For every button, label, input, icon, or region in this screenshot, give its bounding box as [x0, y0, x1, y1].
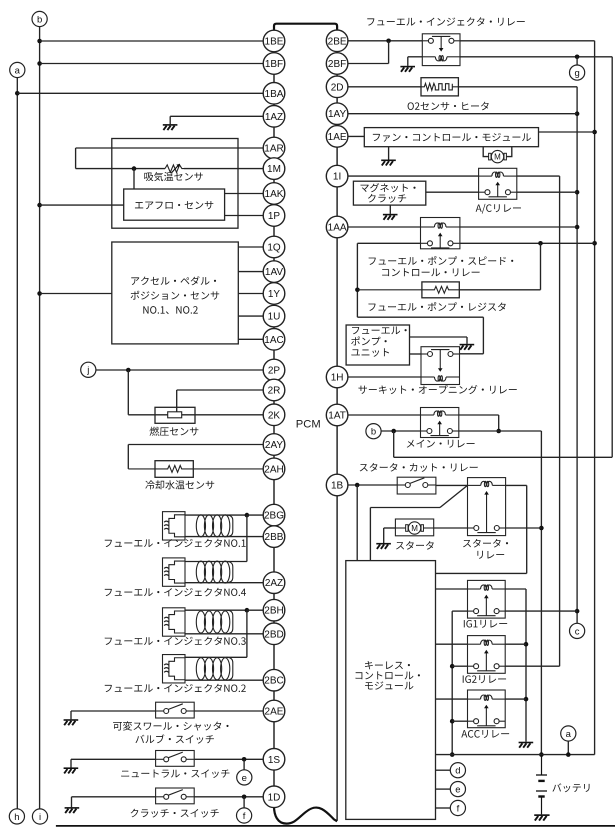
- wire: [452, 610, 467, 612]
- wire coil-gnd bus: [525, 589, 527, 742]
- svg-text:c: c: [575, 626, 580, 637]
- coolant temp sensor resistor: [128, 466, 263, 473]
- wire 1Y: [238, 293, 263, 295]
- wire: [70, 711, 72, 719]
- wire: [247, 609, 263, 611]
- svg-text:e: e: [455, 785, 460, 796]
- wire: [393, 431, 395, 457]
- wire: [185, 609, 247, 611]
- junction: [450, 664, 455, 669]
- wire: [127, 445, 129, 469]
- svg-text:1AK: 1AK: [265, 189, 284, 200]
- label クラッチ・スイッチ: [131, 809, 219, 818]
- wire node-b vertical: [39, 27, 41, 809]
- junction: [575, 111, 580, 116]
- wire: [381, 430, 420, 432]
- PCM pin 2BH: [263, 599, 285, 621]
- svg-text:2BC: 2BC: [264, 676, 283, 687]
- fuel injector No.4: [163, 558, 233, 586]
- svg-text:1AA: 1AA: [328, 223, 347, 234]
- svg-text:1Y: 1Y: [268, 289, 281, 300]
- svg-text:j: j: [86, 365, 89, 376]
- wire: [185, 633, 263, 635]
- PCM pin 1AV: [263, 261, 285, 283]
- label バルブ・スイッチ: [135, 734, 213, 743]
- wire: [71, 797, 73, 807]
- label フューエル・: [352, 327, 407, 335]
- fan motor: [489, 150, 507, 162]
- intake air temp sensor thermistor: [165, 165, 184, 172]
- PCM pin 1Q: [263, 236, 285, 258]
- svg-text:2AZ: 2AZ: [265, 578, 283, 589]
- PCM pin 1S: [263, 749, 285, 771]
- PCM pin 1AE: [326, 126, 348, 148]
- svg-text:2P: 2P: [268, 366, 281, 377]
- wire 1AY: [348, 113, 577, 115]
- ground: [460, 345, 475, 350]
- wire bus main-switch: [540, 431, 542, 755]
- svg-text:1P: 1P: [268, 211, 281, 222]
- wire: [246, 610, 248, 657]
- wire: [384, 527, 396, 529]
- wire: [75, 148, 77, 169]
- PCM pin 1BF: [263, 53, 285, 75]
- wire: [247, 514, 263, 516]
- wire: [567, 741, 569, 755]
- wire feed bus: [451, 611, 453, 755]
- wire e: [436, 788, 451, 790]
- wire: [506, 527, 542, 529]
- label エアフロ・センサ: [135, 201, 213, 209]
- node g: [570, 65, 585, 80]
- wire: [389, 205, 391, 214]
- ground: [65, 808, 80, 813]
- fuel injector relay: [422, 34, 460, 66]
- svg-text:1U: 1U: [268, 312, 281, 323]
- keyless control module box: [346, 561, 436, 820]
- wire: [127, 370, 129, 415]
- label NO.1、NO.2: [143, 306, 197, 314]
- node f left: [237, 808, 252, 823]
- wire: [460, 242, 595, 244]
- fuel injector No.1: [163, 512, 233, 540]
- junction: [575, 225, 580, 230]
- label 吸気温センサ: [144, 172, 202, 181]
- junction: [132, 166, 137, 171]
- wire 1AC: [238, 338, 263, 340]
- label O2センサ・ヒータ: [408, 102, 489, 111]
- PCM pin 2K: [263, 404, 285, 426]
- wire 2K: [182, 414, 264, 416]
- node e keyless: [450, 782, 465, 797]
- wire: [185, 679, 263, 681]
- ground: [163, 125, 178, 130]
- wire 1H: [348, 376, 421, 378]
- wire 1AE: [348, 135, 364, 137]
- junction: [37, 291, 42, 296]
- O2 sensor heater element: [421, 83, 458, 90]
- accel pedal position sensor box: [112, 242, 239, 344]
- wire: [436, 588, 468, 590]
- ground: [534, 815, 549, 820]
- starter cut relay: [397, 477, 436, 494]
- label フューエル・インジェクタNO.4: [105, 588, 246, 597]
- wire: [505, 643, 526, 645]
- IG1 relay: [468, 580, 506, 618]
- wire 1I: [348, 175, 479, 177]
- wire: [388, 147, 390, 160]
- svg-text:b: b: [37, 14, 42, 25]
- wire: [576, 57, 578, 65]
- svg-text:1BA: 1BA: [265, 89, 284, 100]
- svg-text:a: a: [566, 729, 572, 740]
- wire 1AV: [238, 271, 263, 273]
- PCM pin 2BC: [263, 669, 285, 691]
- junction: [242, 757, 247, 762]
- junction: [575, 609, 580, 614]
- svg-text:1S: 1S: [268, 755, 281, 766]
- label リレー: [477, 551, 504, 559]
- PCM pin 1AT: [326, 404, 348, 426]
- label アクセル・ペダル・: [131, 276, 216, 285]
- label フューエル・ポンプ・レジスタ: [368, 302, 505, 311]
- IG2 relay: [468, 636, 506, 674]
- wire bus-C vertical: [611, 57, 613, 458]
- wire: [505, 610, 577, 612]
- fan control module box: [364, 128, 538, 147]
- ground: [381, 160, 396, 165]
- A/C relay: [479, 168, 517, 199]
- wire: [185, 536, 263, 538]
- PCM pin 2BB: [263, 526, 285, 548]
- wire: [40, 293, 112, 295]
- wire: [185, 514, 247, 516]
- fuel pump unit box: [346, 325, 409, 365]
- PCM pin 2BF: [326, 53, 348, 75]
- fuel injector No.3: [163, 608, 233, 636]
- PCM bottom wave: [274, 806, 337, 824]
- svg-text:d: d: [455, 766, 460, 777]
- PCM pin 2BE: [326, 30, 348, 52]
- O2 sensor heater box: [421, 78, 458, 96]
- ground: [64, 720, 79, 725]
- label 燃圧センサ: [150, 427, 199, 436]
- PCM pin 2AZ: [263, 572, 285, 594]
- junction: [242, 795, 247, 800]
- svg-text:1AT: 1AT: [328, 411, 346, 422]
- wire bus-A: [458, 86, 577, 88]
- wire: [436, 698, 468, 700]
- wire: [176, 390, 178, 412]
- starter relay: [468, 478, 506, 536]
- PCM pin 1I: [326, 165, 348, 187]
- svg-text:f: f: [457, 803, 460, 814]
- wire 2P: [96, 369, 263, 371]
- wire 1D: [72, 796, 156, 798]
- wire: [243, 797, 245, 808]
- label フューエル・ポンプ・スピード・: [369, 256, 514, 265]
- label モジュール: [365, 681, 413, 689]
- svg-text:1Q: 1Q: [267, 243, 281, 254]
- node i: [32, 809, 47, 824]
- PCM pin 2AY: [263, 434, 285, 456]
- svg-text:2AH: 2AH: [264, 464, 283, 475]
- svg-text:2D: 2D: [331, 82, 344, 93]
- svg-text:e: e: [242, 773, 247, 784]
- wire 2AE: [71, 710, 156, 712]
- wire: [459, 430, 542, 432]
- junction: [37, 39, 42, 44]
- svg-text:2AE: 2AE: [265, 707, 284, 718]
- PCM pin 1M: [263, 158, 285, 180]
- svg-text:h: h: [14, 812, 19, 823]
- air flow sensor outer box: [112, 139, 238, 229]
- node d keyless: [450, 763, 465, 778]
- fuel pressure sensor element: [168, 412, 182, 418]
- wire 1BE: [40, 40, 264, 42]
- node e left: [237, 770, 252, 785]
- wire: [408, 56, 423, 58]
- svg-text:g: g: [574, 68, 579, 79]
- wire 1BA: [17, 92, 263, 94]
- wire: [436, 484, 468, 486]
- wire: [185, 582, 263, 584]
- label フューエル・インジェクタNO.3: [105, 637, 246, 646]
- PCM pin 1AY: [326, 103, 348, 125]
- fuel pump resistor element: [357, 286, 459, 293]
- magnet clutch box: [353, 181, 425, 205]
- svg-text:1I: 1I: [333, 172, 341, 183]
- svg-text:1AC: 1AC: [264, 335, 283, 346]
- junction: [592, 130, 597, 135]
- starter motor: [395, 519, 433, 536]
- label ACCリレー: [461, 730, 509, 738]
- wire: [243, 759, 245, 770]
- wire node-a vertical: [16, 78, 18, 809]
- wire: [452, 720, 467, 722]
- wire 1AR: [76, 147, 264, 149]
- wire 2D: [348, 86, 421, 88]
- fuel pump speed control relay: [421, 218, 460, 249]
- PCM pin 1AC: [263, 329, 285, 351]
- ground: [383, 215, 398, 220]
- wire: [369, 508, 371, 561]
- wire 1U: [238, 315, 263, 317]
- svg-text:f: f: [243, 811, 246, 822]
- PCM pin 1P: [263, 205, 285, 227]
- air flow sensor box: [124, 189, 225, 220]
- wire: [505, 588, 526, 590]
- ground: [519, 743, 534, 748]
- junction: [566, 752, 571, 757]
- junction: [37, 203, 42, 208]
- label コントロール・: [355, 671, 419, 679]
- wire 1AT: [348, 414, 421, 416]
- svg-text:2BG: 2BG: [264, 511, 284, 522]
- label スタータ: [396, 541, 434, 550]
- wire: [539, 131, 595, 133]
- wire: [505, 698, 526, 700]
- svg-text:1D: 1D: [268, 792, 281, 803]
- wire: [506, 484, 527, 486]
- frame bottom edge: [56, 825, 615, 827]
- label ポジション・センサ: [131, 291, 220, 300]
- PCM connector right chain: [336, 31, 338, 821]
- label 冷却水温センサ: [145, 480, 214, 489]
- ground: [376, 544, 391, 549]
- label IG1リレー: [464, 620, 507, 628]
- PCM pin 2R: [263, 379, 285, 401]
- node f keyless: [450, 800, 465, 815]
- label スタータ・カット・リレー: [360, 463, 478, 472]
- svg-text:1B: 1B: [331, 481, 344, 492]
- svg-text:2BB: 2BB: [265, 532, 284, 543]
- wire 2BE: [348, 40, 422, 42]
- wire: [459, 414, 499, 416]
- junction: [524, 697, 529, 702]
- svg-text:2AY: 2AY: [265, 440, 283, 451]
- junction: [126, 368, 131, 373]
- wire 2AY: [128, 444, 263, 446]
- PCM pin 2P: [263, 359, 285, 381]
- svg-text:1BE: 1BE: [265, 37, 284, 48]
- PCM pin 1B: [326, 474, 348, 496]
- circuit opening relay: [421, 347, 460, 385]
- wire 1AK: [225, 193, 264, 195]
- ground: [64, 768, 79, 773]
- junction: [539, 752, 544, 757]
- label バッテリ: [552, 783, 589, 792]
- label 可変スワール・シャッタ・: [113, 721, 229, 730]
- svg-text:1AE: 1AE: [328, 132, 347, 143]
- PCM pin 1AZ: [263, 106, 285, 128]
- junction: [386, 39, 391, 44]
- wire 1BF: [40, 63, 264, 65]
- junction: [592, 241, 597, 246]
- wire 1P: [225, 215, 264, 217]
- svg-text:2BH: 2BH: [264, 606, 283, 617]
- junction: [245, 608, 250, 613]
- label IG2リレー: [463, 675, 506, 683]
- wire: [185, 656, 247, 658]
- wire: [169, 116, 171, 124]
- wire: [70, 759, 72, 767]
- PCM pin 1BE: [263, 30, 285, 52]
- junction: [539, 526, 544, 531]
- label コントロール・リレー: [382, 268, 479, 276]
- fuel pump resistor box: [422, 282, 459, 298]
- junction: [496, 429, 501, 434]
- svg-text:2BE: 2BE: [328, 36, 347, 47]
- svg-text:1M: 1M: [267, 164, 281, 175]
- wire: [246, 515, 248, 561]
- PCM pin 2D: [326, 76, 348, 98]
- node b top: [32, 11, 47, 26]
- junction: [391, 429, 396, 434]
- wire: [460, 226, 577, 228]
- ground: [400, 67, 415, 72]
- wire 1B: [348, 484, 397, 486]
- label サーキット・オープニング・リレー: [358, 385, 516, 394]
- wire bus-B: [460, 40, 595, 42]
- wire 2R: [177, 389, 264, 391]
- svg-text:M: M: [411, 524, 418, 533]
- label キーレス・: [365, 661, 410, 669]
- coolant temp sensor box: [155, 461, 193, 478]
- label フューエル・インジェクタNO.1: [105, 539, 246, 548]
- label クラッチ: [368, 194, 406, 203]
- ACC relay: [468, 690, 506, 728]
- wire: [517, 175, 560, 177]
- wire: [357, 242, 420, 244]
- label マグネット・: [361, 183, 416, 192]
- wire: [436, 643, 468, 645]
- label ユニット: [351, 348, 389, 356]
- junction: [538, 241, 543, 246]
- wire: [128, 414, 167, 416]
- label スタータ・: [463, 539, 508, 548]
- wire 1S: [71, 758, 156, 760]
- wire diagonal: [440, 485, 468, 507]
- node j: [81, 362, 96, 377]
- label フューエル・インジェクタNO.2: [105, 684, 246, 693]
- PCM pin 1BA: [263, 83, 285, 105]
- wire battery line: [436, 754, 595, 756]
- wire: [407, 57, 409, 66]
- wire: [410, 336, 468, 338]
- wire: [410, 353, 422, 355]
- label フューエル・インジェクタ・リレー: [367, 17, 525, 26]
- junction: [37, 61, 42, 66]
- battery: [536, 755, 547, 815]
- wire: [434, 527, 468, 529]
- PCM pin 1D: [263, 786, 285, 808]
- wire: [426, 191, 479, 193]
- node h: [9, 809, 24, 824]
- svg-text:1AV: 1AV: [265, 267, 283, 278]
- svg-text:1BF: 1BF: [265, 59, 283, 70]
- label メイン・リレー: [407, 439, 475, 447]
- wire f: [436, 807, 451, 809]
- wire: [185, 561, 247, 563]
- wire bus-C: [460, 56, 612, 58]
- clutch switch: [156, 788, 195, 804]
- node b main relay: [366, 424, 381, 439]
- node a left: [10, 62, 25, 77]
- PCM pin 2BG: [263, 504, 285, 526]
- wire: [40, 204, 124, 206]
- svg-text:1AY: 1AY: [328, 109, 346, 120]
- PCM pin 1AK: [263, 183, 285, 205]
- wire: [517, 191, 577, 193]
- wire 1AZ: [170, 115, 263, 117]
- PCM pin 1U: [263, 305, 285, 327]
- PCM pin 2AE: [263, 700, 285, 722]
- wire 1M thermistor line: [76, 168, 165, 170]
- junction: [575, 55, 580, 60]
- svg-text:b: b: [371, 427, 376, 438]
- junction: [15, 91, 20, 96]
- node c: [570, 623, 585, 638]
- label ニュートラル・スイッチ: [121, 769, 229, 778]
- PCM top bracket: [274, 24, 337, 31]
- label ファン・コントロール・モジュール: [373, 133, 531, 142]
- wire: [452, 665, 467, 667]
- wire 2BF: [348, 63, 389, 65]
- fuel injector No.2: [163, 655, 233, 683]
- svg-text:1AZ: 1AZ: [265, 112, 283, 123]
- PCM pin 1AR: [263, 137, 285, 159]
